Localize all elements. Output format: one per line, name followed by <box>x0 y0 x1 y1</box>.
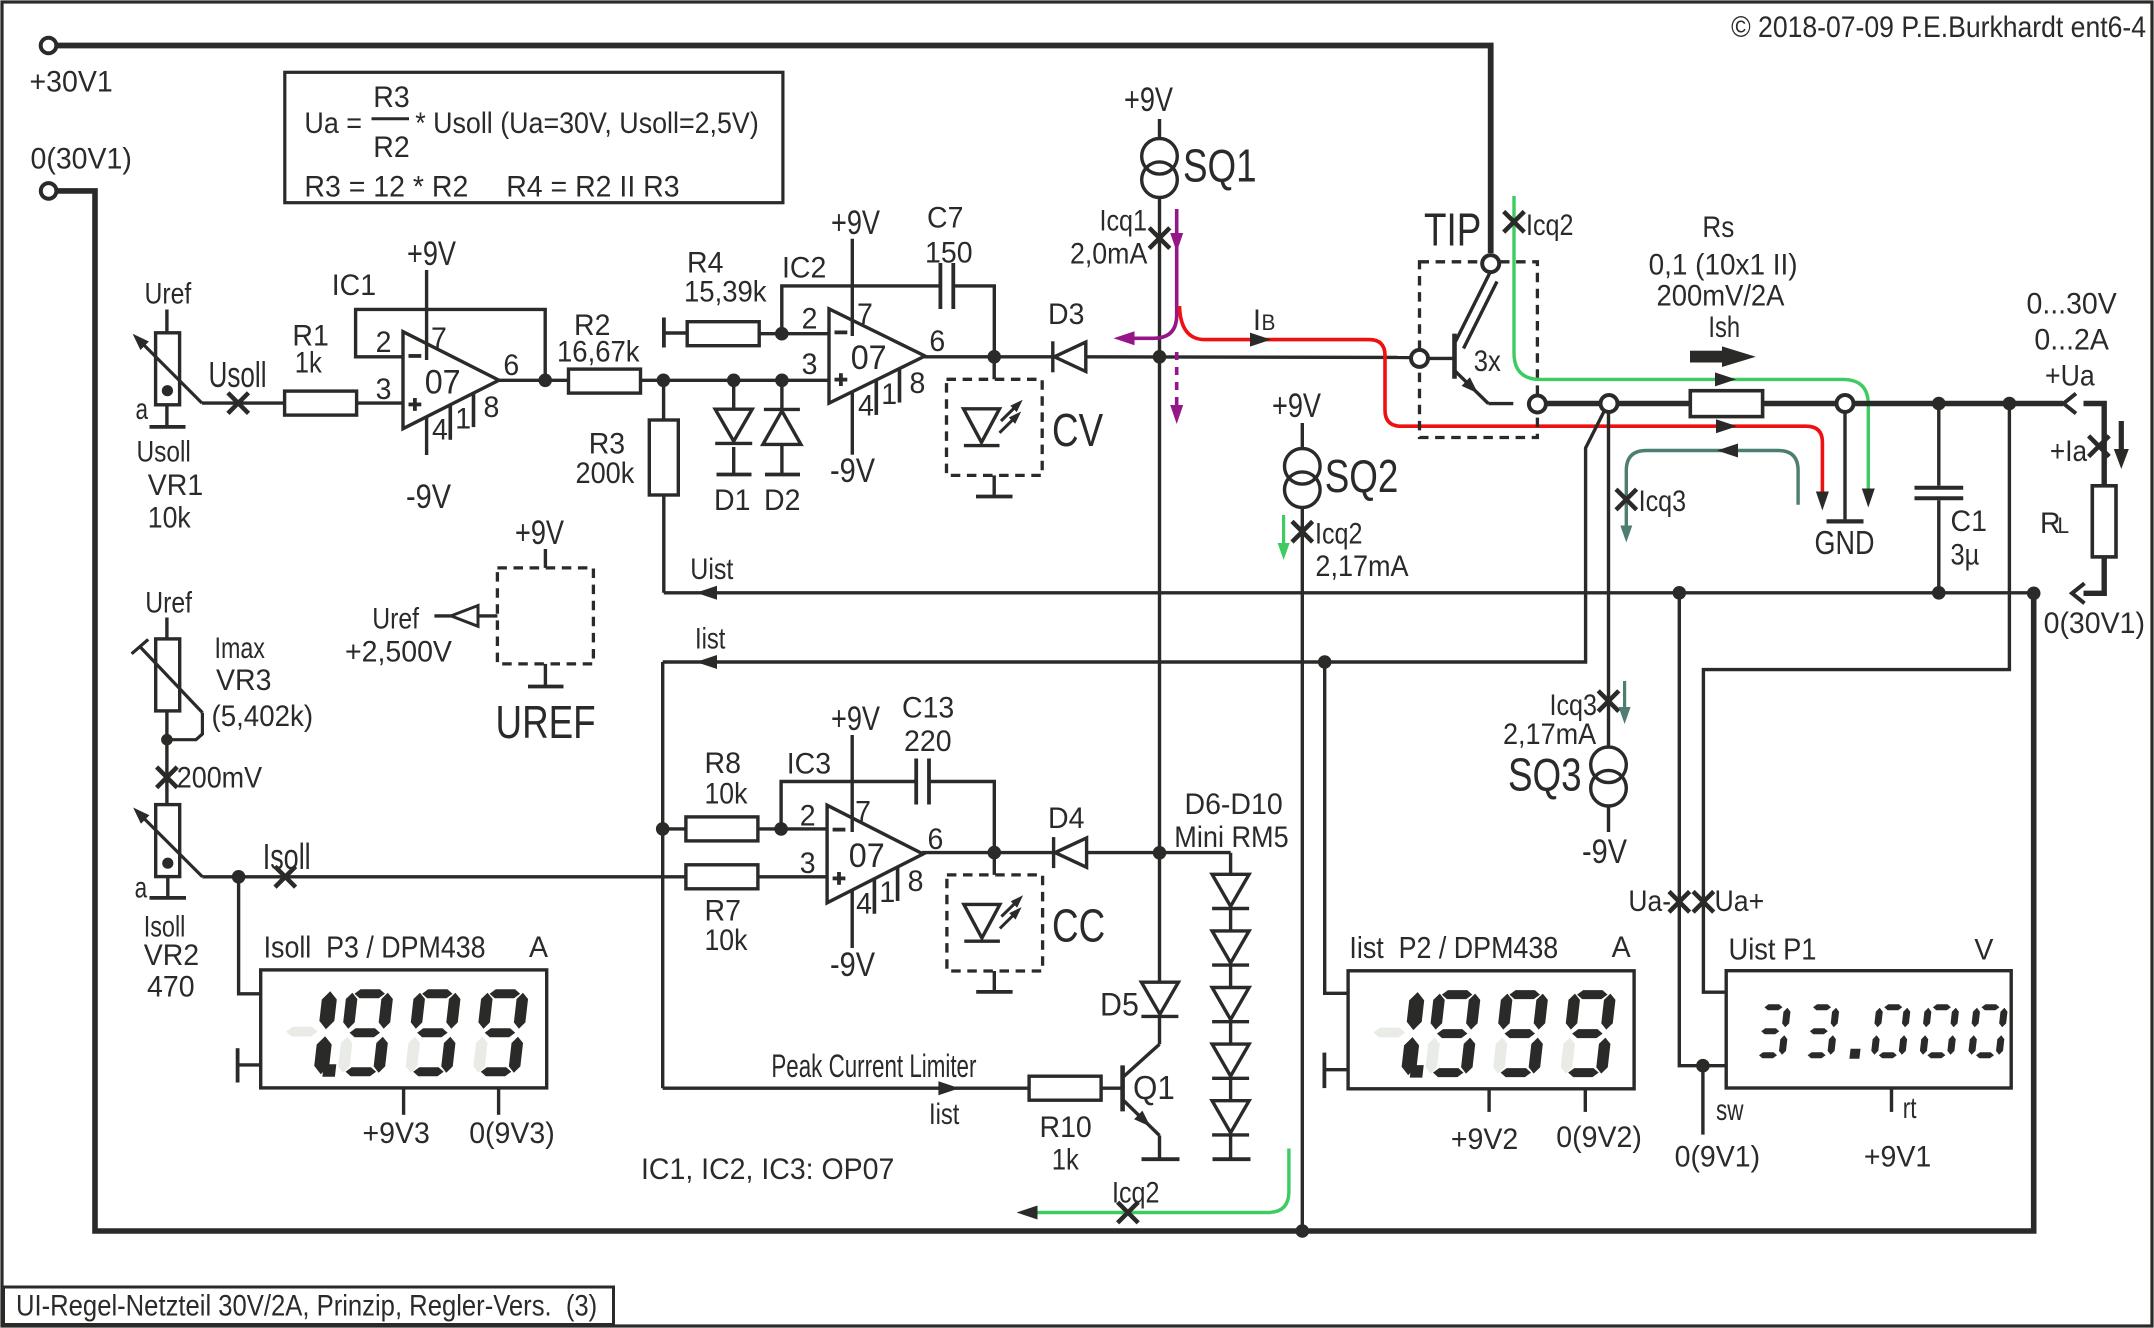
node Ua+ sense <box>2003 397 2017 411</box>
svg-text:1k: 1k <box>1052 1143 1079 1176</box>
svg-text:-9V: -9V <box>1582 832 1627 871</box>
svg-text:8: 8 <box>908 865 924 898</box>
formula box <box>285 72 783 202</box>
potentiometer VR3 Imax <box>156 639 180 711</box>
optocoupler CC box <box>947 875 1043 971</box>
svg-text:3: 3 <box>376 373 392 406</box>
wire IC3 feedback top rail <box>781 782 916 829</box>
wire Iist node to P2 <box>1325 662 1348 993</box>
shunt resistor Rs <box>1690 391 1762 417</box>
svg-text:-9V: -9V <box>830 945 875 984</box>
display P1 box <box>1726 971 2011 1088</box>
wire Rs sense diagonal to Iist line <box>663 411 1605 663</box>
wire IC1 -9V supply <box>425 417 428 456</box>
node D4/SQ1/D6 chain <box>1153 846 1167 860</box>
diode D1 <box>732 380 735 409</box>
wire Uref to VR1 <box>165 310 168 335</box>
terminal 0(30V1) <box>41 183 57 199</box>
diode D8 <box>1212 988 1249 1020</box>
svg-text:© 2018-07-09 P.E.Burkhardt ent: © 2018-07-09 P.E.Burkhardt ent6-4 <box>1731 11 2146 45</box>
Icq1 cross mark <box>1149 228 1170 249</box>
svg-text:10k: 10k <box>705 924 749 958</box>
wire IC1 feedback loop <box>356 309 546 380</box>
voltage reference UREF box <box>497 568 593 664</box>
TIP dashed box <box>1420 262 1538 438</box>
wire +9V to UREF <box>544 549 547 568</box>
svg-text:Iist: Iist <box>695 621 726 655</box>
terminal +30V1 <box>41 38 57 54</box>
wire Rs kelvin to SQ3 <box>1607 412 1610 748</box>
svg-text:Isoll P3 / DPM438: Isoll P3 / DPM438 <box>264 931 486 965</box>
wire Uref to VR3 <box>165 618 168 640</box>
Icq2 cross at SQ2 <box>1292 521 1313 542</box>
svg-text:Uref: Uref <box>145 585 192 619</box>
Icq2 green return path <box>1029 1149 1289 1213</box>
wire Isoll node to P3 <box>239 877 261 994</box>
title box <box>4 1287 614 1325</box>
svg-text:4: 4 <box>432 414 448 447</box>
svg-text:+9V: +9V <box>515 513 564 552</box>
diode D3 <box>1051 341 1054 372</box>
svg-text:0(9V3): 0(9V3) <box>469 1117 555 1150</box>
wire RL bottom <box>2084 557 2105 593</box>
node bottom rail corner <box>2027 587 2041 601</box>
svg-text:6: 6 <box>503 350 519 383</box>
IB red current path <box>1180 306 1823 498</box>
resistor R10 1k <box>1029 1076 1101 1100</box>
resistor R4 15,39k <box>662 318 666 348</box>
svg-text:2,0mA: 2,0mA <box>1070 237 1147 271</box>
node R8 tap <box>656 822 670 836</box>
svg-text:470: 470 <box>147 971 195 1004</box>
svg-text:+9V: +9V <box>1272 386 1321 425</box>
svg-text:Icq1: Icq1 <box>1100 203 1147 237</box>
svg-text:Uist: Uist <box>690 552 733 586</box>
svg-text:SQ1: SQ1 <box>1183 140 1257 192</box>
svg-text:(5,402k): (5,402k) <box>212 700 314 733</box>
node D2 <box>775 374 789 388</box>
wire Ua+ sense from output rail to P1 <box>1703 404 2009 993</box>
svg-text:15,39k: 15,39k <box>684 275 767 308</box>
svg-text:07: 07 <box>851 339 887 377</box>
current source SQ3 <box>1591 747 1627 783</box>
Ua- cross <box>1669 892 1690 913</box>
resistor R2 16,67k <box>569 369 641 393</box>
svg-text:+9V3: +9V3 <box>363 1117 430 1150</box>
wire Rs to right terminal <box>1763 401 1837 406</box>
op-amp IC1 <box>403 332 499 429</box>
wire IC1 output <box>499 379 569 382</box>
svg-text:0(9V2): 0(9V2) <box>1556 1121 1642 1154</box>
wire D4 to chain node <box>1087 851 1231 854</box>
wire Iist down the left <box>661 662 664 1088</box>
wire D3 to TIP base <box>1086 355 1411 359</box>
svg-text:IC2: IC2 <box>782 252 826 285</box>
svg-text:Icq2: Icq2 <box>1526 208 1573 242</box>
connector cut 0(30V1) output <box>2072 583 2085 603</box>
wire Uref output arrow <box>434 614 497 617</box>
diode D4 <box>1052 837 1055 868</box>
svg-text:0...2A: 0...2A <box>2034 324 2109 357</box>
svg-text:Isoll: Isoll <box>144 910 186 943</box>
Icq3 cross at SQ3 wire <box>1598 691 1619 712</box>
svg-text:R8: R8 <box>705 747 741 780</box>
wire 0(30V1) return rail <box>57 191 2034 1231</box>
wire chain bottom <box>1229 1135 1232 1159</box>
svg-text:200mV/2A: 200mV/2A <box>1657 279 1786 312</box>
connector cut +Ua <box>2064 394 2077 414</box>
op-amp IC2 <box>829 309 925 403</box>
svg-text:10k: 10k <box>705 777 749 811</box>
node P1 sw <box>1696 1059 1710 1073</box>
svg-text:2: 2 <box>802 303 818 336</box>
svg-text:Iist P2 / DPM438: Iist P2 / DPM438 <box>1349 931 1558 965</box>
svg-text:200mV: 200mV <box>177 761 262 795</box>
svg-text:D2: D2 <box>764 484 800 517</box>
svg-text:R3: R3 <box>589 428 625 461</box>
wire Isoll line to R7 <box>202 875 686 878</box>
node C1 top <box>1932 397 1946 411</box>
wire +Ua to RL <box>2084 404 2105 486</box>
svg-text:a: a <box>135 870 148 904</box>
wire P3 +9V3 stub <box>402 1088 405 1114</box>
svg-text:* Usoll (Ua=30V, Usoll=2,5V): * Usoll (Ua=30V, Usoll=2,5V) <box>415 107 759 141</box>
svg-text:-9V: -9V <box>830 451 875 490</box>
wire +30V1 rail <box>57 46 1491 254</box>
svg-text:rt: rt <box>1903 1091 1917 1125</box>
svg-text:VR1: VR1 <box>148 469 203 502</box>
svg-text:L: L <box>2058 514 2070 539</box>
svg-text:R3: R3 <box>373 81 409 114</box>
P1 digits 33.000 <box>1758 1004 1791 1058</box>
wire to CV box <box>993 357 996 380</box>
+Ia arrow and cross <box>2089 436 2110 457</box>
display P3 DPM438 <box>261 970 547 1088</box>
wire peak current limiter line <box>663 1086 1029 1089</box>
svg-text:D6-D10: D6-D10 <box>1185 788 1283 821</box>
svg-text:C1: C1 <box>1951 505 1987 538</box>
transistor Q1 <box>1120 1065 1125 1111</box>
svg-text:IC1: IC1 <box>332 269 376 302</box>
svg-text:B: B <box>1262 311 1276 336</box>
svg-text:200k: 200k <box>576 457 635 491</box>
svg-text:Usoll: Usoll <box>209 355 267 395</box>
svg-text:7: 7 <box>857 299 873 332</box>
diode D7 <box>1212 931 1249 963</box>
svg-text:0(30V1): 0(30V1) <box>2044 607 2145 640</box>
wire SQ1 down to main line <box>1158 198 1161 357</box>
svg-text:4: 4 <box>856 888 872 921</box>
svg-text:R3 = 12 * R2: R3 = 12 * R2 <box>304 171 468 204</box>
svg-text:7: 7 <box>431 322 447 355</box>
wire P3 0(9V3) stub <box>497 1088 500 1114</box>
potentiometer VR1 10k <box>156 333 180 405</box>
svg-text:GND: GND <box>1815 526 1875 562</box>
svg-text:Icq3: Icq3 <box>1550 688 1597 722</box>
svg-text:1: 1 <box>455 403 471 436</box>
200mV cross <box>157 767 178 788</box>
resistor R7 10k <box>686 865 758 889</box>
svg-text:Peak Current Limiter: Peak Current Limiter <box>771 1048 976 1084</box>
svg-text:C7: C7 <box>927 202 963 235</box>
wire CV bottom terminal <box>993 475 996 496</box>
svg-text:+Ia: +Ia <box>2050 434 2087 467</box>
node C1 bottom <box>1932 586 1946 600</box>
capacitor C7 150 <box>939 263 943 309</box>
current source SQ2 <box>1285 449 1321 485</box>
terminal Rs kelvin <box>1601 395 1618 412</box>
diode D10 <box>1212 1101 1249 1133</box>
svg-text:VR2: VR2 <box>144 939 199 972</box>
current source SQ1 <box>1142 139 1178 175</box>
svg-text:Isoll: Isoll <box>263 836 311 877</box>
svg-text:8: 8 <box>910 367 926 400</box>
svg-text:6: 6 <box>929 325 945 358</box>
svg-text:+9V: +9V <box>831 699 880 738</box>
svg-text:IC3: IC3 <box>787 748 831 781</box>
svg-text:0(9V1): 0(9V1) <box>1675 1141 1761 1174</box>
P2 lower-left terminal tick <box>1323 1053 1327 1089</box>
svg-text:IC1, IC2, IC3: OP07: IC1, IC2, IC3: OP07 <box>641 1153 894 1186</box>
svg-text:Q1: Q1 <box>1133 1069 1175 1106</box>
terminal TIP collector <box>1482 255 1499 272</box>
node Ua- sense on Uist line <box>1673 586 1687 600</box>
node IC1 out <box>538 374 552 388</box>
wire UREF bottom terminal <box>544 664 547 687</box>
svg-text:SQ3: SQ3 <box>1508 749 1582 801</box>
svg-text:Uref: Uref <box>145 276 192 310</box>
svg-text:4: 4 <box>858 390 874 423</box>
wire IC3 +9V supply <box>851 735 854 832</box>
display P2 DPM438 <box>1348 971 1634 1089</box>
wire D5 to Q1 collector <box>1158 1018 1161 1045</box>
svg-text:+30V1: +30V1 <box>30 66 113 99</box>
node D1 <box>727 374 741 388</box>
svg-text:UREF: UREF <box>496 696 596 748</box>
svg-text:3: 3 <box>800 847 816 880</box>
svg-text:+9V: +9V <box>831 203 880 242</box>
wire IC3 output line <box>922 851 1054 854</box>
wire VR3 bottom <box>165 711 168 805</box>
diode D5 <box>1141 982 1178 1014</box>
Icq1 dashed purple segment <box>1175 352 1179 411</box>
svg-text:TIP: TIP <box>1424 204 1481 256</box>
svg-text:Uist P1: Uist P1 <box>1729 933 1817 967</box>
svg-text:150: 150 <box>925 237 973 270</box>
Icq2 green path at TIP <box>1514 196 1868 495</box>
wire R10 to Q1 base <box>1101 1086 1122 1089</box>
node SQ1/main line <box>1153 350 1167 364</box>
svg-text:CC: CC <box>1052 900 1105 952</box>
wire node to diode chain <box>1229 853 1232 875</box>
wire SQ2 down to bottom rail <box>1301 508 1304 1232</box>
wire to CC box <box>993 853 996 875</box>
transistor TIP base bar <box>1452 334 1457 379</box>
svg-text:a: a <box>136 392 149 426</box>
wire P2 0(9V2) stub <box>1584 1089 1587 1112</box>
svg-text:8: 8 <box>484 392 500 425</box>
wire +9V to SQ1 <box>1158 119 1161 139</box>
diode D2 <box>780 380 783 409</box>
svg-text:+9V: +9V <box>407 234 456 273</box>
TIP collector double line <box>1456 274 1490 342</box>
svg-text:2,17mA: 2,17mA <box>1503 718 1596 752</box>
svg-text:7: 7 <box>855 796 871 829</box>
svg-text:Ish: Ish <box>1708 310 1740 343</box>
svg-text:2: 2 <box>800 800 816 833</box>
svg-text:sw: sw <box>1716 1093 1744 1127</box>
wire Ua- sense from Uist line to P1 <box>1679 593 1726 1066</box>
TIP emitter <box>1455 371 1489 404</box>
Icq3 cross on teal path <box>1616 489 1637 510</box>
svg-text:3x: 3x <box>1474 344 1501 377</box>
svg-text:Uref: Uref <box>372 601 419 635</box>
wire emitter rail <box>1546 401 1601 406</box>
wire CC bottom terminal <box>993 971 996 992</box>
svg-text:3µ: 3µ <box>1951 538 1980 571</box>
node SQ2/bottom rail <box>1296 1224 1310 1238</box>
svg-text:10k: 10k <box>148 501 192 535</box>
Icq1 purple current path <box>1126 209 1177 338</box>
svg-text:A: A <box>1612 931 1631 964</box>
wire SQ1 node down to D4 node <box>1158 357 1161 853</box>
svg-text:1: 1 <box>879 877 895 910</box>
node IC2 out / CV <box>987 350 1001 364</box>
node Isoll/P3 <box>232 870 246 884</box>
op-amp IC3 <box>827 805 923 903</box>
resistor R1 1k <box>285 391 357 415</box>
Icq3 teal current path <box>1626 451 1798 531</box>
svg-text:UI-Regel-Netzteil 30V/2A, Prin: UI-Regel-Netzteil 30V/2A, Prinzip, Regle… <box>16 1289 597 1322</box>
svg-text:VR3: VR3 <box>216 664 271 697</box>
svg-text:2,17mA: 2,17mA <box>1315 550 1408 584</box>
Icq2 cross at TIP <box>1504 212 1525 233</box>
wire VR2 bottom <box>166 877 169 898</box>
svg-text:0...30V: 0...30V <box>2027 288 2118 321</box>
Ua+ cross <box>1693 892 1714 913</box>
svg-text:C13: C13 <box>902 692 954 725</box>
wire rail to +Ua <box>1854 401 2064 406</box>
svg-text:+9V2: +9V2 <box>1451 1123 1518 1156</box>
svg-text:+Ua: +Ua <box>2045 359 2095 393</box>
wire P2 +9V2 stub <box>1487 1089 1490 1112</box>
svg-text:3: 3 <box>802 348 818 381</box>
svg-text:D5: D5 <box>1100 987 1139 1023</box>
svg-text:1: 1 <box>881 379 897 412</box>
node R8/IC3 pin2 <box>774 822 788 836</box>
svg-text:07: 07 <box>849 837 885 875</box>
node VR3 wiper <box>161 734 173 746</box>
capacitor C13 220 <box>914 759 918 805</box>
svg-text:A: A <box>529 931 548 964</box>
wire R2 to IC2 pin3 <box>640 379 829 382</box>
wire SQ3 to -9V <box>1607 806 1610 832</box>
wire sw stub <box>1701 1066 1704 1135</box>
wire TIP base <box>1428 357 1455 360</box>
svg-text:Ua-: Ua- <box>1628 883 1671 917</box>
svg-text:16,67k: 16,67k <box>557 335 640 368</box>
resistor R3 200k <box>662 380 665 420</box>
wire R3 to Uist line <box>662 495 665 593</box>
svg-text:Mini RM5: Mini RM5 <box>1174 821 1288 855</box>
wire IC2 output line <box>923 355 1053 358</box>
terminal TIP emitter <box>1529 396 1546 413</box>
svg-text:+2,500V: +2,500V <box>345 636 452 669</box>
load resistor RL <box>2092 486 2116 557</box>
svg-text:SQ2: SQ2 <box>1325 450 1399 502</box>
svg-text:0,1 (10x1 II): 0,1 (10x1 II) <box>1649 249 1798 282</box>
svg-text:+9V: +9V <box>1124 80 1173 119</box>
svg-text:Ua+: Ua+ <box>1715 885 1765 919</box>
wire IC2 feedback top rail <box>782 286 941 334</box>
wire IC2 -9V supply <box>851 392 854 455</box>
svg-text:Icq3: Icq3 <box>1639 484 1686 518</box>
wire R1 to IC1 pin3 <box>357 401 403 404</box>
svg-text:-9V: -9V <box>406 477 451 516</box>
svg-text:Icq2: Icq2 <box>1315 516 1362 550</box>
node IC3 out / CC <box>988 846 1002 860</box>
Icq2 green mini arrow <box>1282 515 1285 547</box>
optocoupler CV box <box>947 379 1043 475</box>
P3 lower-left terminal tick <box>236 1048 240 1082</box>
potentiometer VR2 Isoll <box>156 805 180 877</box>
wire Usoll node <box>202 401 285 404</box>
wire Uist feedback <box>664 591 2034 594</box>
terminal Rs right <box>1837 395 1854 412</box>
svg-text:220: 220 <box>904 725 952 758</box>
svg-text:R2: R2 <box>373 131 409 164</box>
terminal TIP base <box>1411 350 1428 367</box>
wire C7 to IC2 output <box>953 286 994 357</box>
svg-text:D1: D1 <box>714 484 750 517</box>
node R4/IC2 pin2 <box>775 327 789 341</box>
svg-text:CV: CV <box>1052 404 1103 456</box>
svg-text:D3: D3 <box>1048 298 1084 331</box>
svg-text:Ua =: Ua = <box>304 107 362 141</box>
svg-text:I: I <box>1253 304 1261 337</box>
wire P1 rt stub <box>1890 1088 1893 1112</box>
wire +9V to SQ2 <box>1301 423 1304 449</box>
svg-text:Iist: Iist <box>929 1096 960 1130</box>
ground GND <box>1843 412 1846 519</box>
svg-text:2: 2 <box>376 326 392 359</box>
svg-text:1k: 1k <box>295 346 322 379</box>
wire IC1 +9V supply <box>425 270 428 360</box>
svg-text:R10: R10 <box>1040 1111 1092 1144</box>
diode D9 <box>1212 1044 1249 1076</box>
svg-text:0(30V1): 0(30V1) <box>31 143 132 176</box>
svg-text:Imax: Imax <box>215 631 266 665</box>
resistor R8 10k <box>686 817 758 841</box>
wire IC3 -9V supply <box>851 890 854 949</box>
svg-text:Usoll: Usoll <box>137 434 191 468</box>
svg-text:Icq2: Icq2 <box>1112 1175 1159 1209</box>
svg-text:V: V <box>1974 934 1993 967</box>
wire VR1 bottom <box>165 405 168 427</box>
wire IC2 +9V supply <box>851 239 854 336</box>
svg-text:+9V1: +9V1 <box>1864 1141 1931 1174</box>
svg-text:Rs: Rs <box>1702 210 1734 243</box>
wire C13 to IC3 output <box>929 782 994 853</box>
node R2/R3 <box>657 374 671 388</box>
node P2 tap on Iist line <box>1318 655 1332 669</box>
svg-text:D4: D4 <box>1048 802 1084 835</box>
wire node to D5 <box>1158 853 1161 982</box>
capacitor C1 3u <box>1937 404 1940 486</box>
svg-text:07: 07 <box>425 364 461 402</box>
diode D6 <box>1212 874 1249 906</box>
svg-text:R4 = R2 II R3: R4 = R2 II R3 <box>506 171 679 204</box>
